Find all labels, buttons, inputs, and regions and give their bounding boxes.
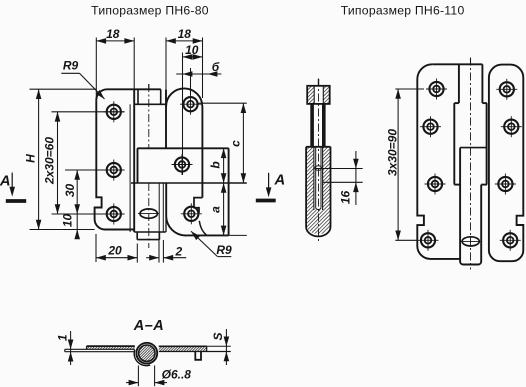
svg-text:a: a — [209, 206, 223, 213]
dim 18 left — [95, 38, 97, 101]
svg-text:30: 30 — [63, 184, 77, 198]
dim 3x30=90 — [395, 89, 424, 240]
axis — [470, 58, 472, 66]
section marker A left — [6, 173, 26, 201]
dim Ø6..8 — [126, 366, 167, 387]
hatched cap areas — [307, 86, 314, 104]
axis — [318, 79, 320, 86]
barrel left inner line — [129, 104, 131, 232]
small curve under screw — [199, 221, 207, 236]
right leaf — [489, 65, 523, 262]
svg-text:б: б — [212, 60, 220, 74]
svg-text:A: A — [273, 173, 285, 189]
neck tube — [310, 104, 314, 147]
barrel right edge — [165, 89, 167, 148]
svg-text:1: 1 — [56, 334, 70, 341]
svg-text:А–А: А–А — [133, 318, 165, 334]
svg-text:b: b — [209, 161, 223, 168]
barrel right inner lines — [158, 183, 160, 240]
svg-text:10: 10 — [185, 43, 199, 57]
dims a b c — [197, 102, 247, 104]
dim 16 — [316, 151, 363, 205]
dim 2x30=60 — [57, 112, 59, 214]
svg-text:R9: R9 — [216, 243, 232, 257]
hatched bars — [87, 346, 135, 349]
inner joint — [460, 147, 486, 149]
R9 leaders — [61, 72, 79, 74]
left leaf — [417, 64, 460, 259]
bottom cap — [460, 260, 481, 265]
tab — [195, 352, 201, 360]
top pin cap — [135, 89, 166, 104]
right leaf notch — [194, 198, 202, 213]
svg-text:16: 16 — [339, 191, 353, 205]
svg-text:2: 2 — [174, 245, 182, 259]
right leaf strip right edge — [201, 107, 203, 198]
svg-text:S: S — [211, 332, 225, 340]
pin inside — [315, 166, 322, 171]
wide segment — [454, 102, 459, 104]
right leaf plate — [137, 147, 228, 149]
barrel hatched walls — [306, 147, 314, 227]
svg-text:10: 10 — [61, 214, 75, 228]
screws right leaf — [180, 94, 201, 115]
dim S — [225, 329, 227, 365]
svg-text:Типоразмер ПН6-80: Типоразмер ПН6-80 — [91, 3, 209, 17]
bottom pin cap — [134, 232, 166, 240]
svg-text:18: 18 — [106, 27, 120, 41]
arrowheads left figure — [96, 38, 106, 44]
top line — [87, 345, 135, 347]
dim 1 — [70, 331, 72, 365]
svg-text:3x30=90: 3x30=90 — [385, 129, 399, 176]
oval — [462, 237, 479, 246]
pin circle — [134, 350, 150, 366]
dim 30 + dim 10 — [76, 170, 78, 238]
dim 20 — [95, 234, 97, 262]
screws left leaf — [103, 101, 124, 122]
pin axis dash-dot — [148, 84, 150, 90]
svg-text:R9: R9 — [63, 59, 79, 73]
right leaf dome — [166, 88, 202, 106]
dim 10 top — [182, 53, 184, 176]
horizontal joint line y=183 — [131, 182, 247, 184]
svg-text:18: 18 — [178, 27, 192, 41]
dim 2 — [158, 240, 160, 263]
dim b (б) line — [176, 73, 221, 75]
section marker A right — [256, 173, 276, 201]
svg-text:A: A — [0, 173, 11, 189]
barrel left edge — [133, 89, 135, 232]
screws right figure — [426, 79, 447, 100]
bottom plate — [65, 351, 135, 353]
bore inner lines — [313, 147, 315, 210]
plate bottom-left arc R9 — [166, 216, 186, 235]
cap outline — [307, 86, 330, 104]
dim H — [30, 88, 97, 90]
svg-text:H: H — [24, 154, 38, 163]
barrel outline — [306, 147, 330, 237]
middle line — [65, 348, 135, 350]
svg-text:20: 20 — [107, 244, 122, 258]
left leaf outline — [96, 89, 161, 100]
left figure dimensions — [30, 38, 247, 263]
screw leader lines — [52, 111, 125, 113]
svg-text:2x30=60: 2x30=60 — [43, 137, 57, 185]
central column top narrow — [458, 64, 460, 103]
svg-text:Типоразмер ПН6-110: Типоразмер ПН6-110 — [341, 3, 465, 17]
oval hole in barrel — [140, 209, 157, 218]
dim 18 right exts — [165, 38, 167, 90]
svg-text:c: c — [229, 140, 243, 147]
svg-text:Ø6..8: Ø6..8 — [162, 368, 192, 382]
